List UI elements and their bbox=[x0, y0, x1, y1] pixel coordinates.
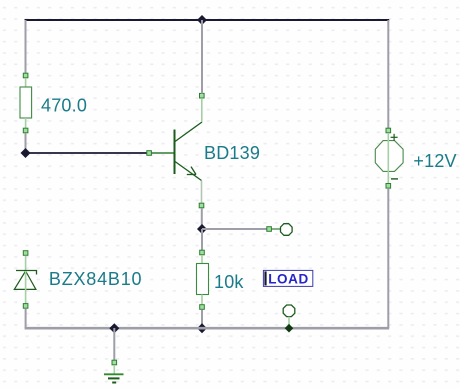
transistor BD139 bbox=[147, 93, 204, 207]
wire right vertical (bottom) bbox=[387, 188, 389, 328]
svg-text:+12V: +12V bbox=[413, 151, 456, 171]
svg-text:BD139: BD139 bbox=[204, 143, 260, 163]
terminal OUT (octagon) bbox=[267, 224, 292, 236]
node junction ground tap bbox=[109, 323, 119, 333]
wire top rail bbox=[25, 19, 390, 21]
wire left vertical (top to R470) bbox=[25, 20, 27, 74]
value label 10k bbox=[214, 272, 244, 292]
terminal bottom (octagon) bbox=[283, 305, 295, 333]
node junction top (collector tap) bbox=[197, 15, 207, 25]
svg-text:BZX84B10: BZX84B10 bbox=[49, 269, 142, 289]
label LOAD bbox=[263, 270, 312, 286]
zener diode BZX84B10 bbox=[14, 251, 36, 309]
wire emitter node to 10k bbox=[201, 229, 203, 251]
wire emitter down bbox=[201, 208, 203, 229]
svg-text:10k: 10k bbox=[214, 272, 244, 292]
wire collector (top node to transistor) bbox=[201, 20, 203, 94]
voltage source V1 +12V bbox=[375, 128, 403, 188]
wire base (dark) bbox=[26, 152, 148, 154]
svg-text:470.0: 470.0 bbox=[41, 96, 87, 116]
wire ground stem bbox=[113, 328, 115, 360]
label BZX84B10 bbox=[49, 269, 142, 289]
node junction emitter tap bbox=[197, 224, 207, 234]
node junction bottom (10k) bbox=[197, 323, 207, 333]
value label 470.0 bbox=[41, 96, 87, 116]
ground bbox=[104, 360, 124, 382]
wire R470 to base node bbox=[25, 133, 27, 153]
resistor 470.0 bbox=[20, 73, 32, 133]
node junction base tap bbox=[21, 148, 31, 158]
resistor 10k bbox=[197, 250, 209, 309]
wire right vertical (top) bbox=[387, 20, 389, 129]
label +12V bbox=[413, 151, 456, 171]
wire bottom rail bbox=[25, 327, 390, 330]
wire to right terminal bbox=[202, 228, 267, 230]
label BD139 bbox=[204, 143, 260, 163]
wire 10k to bottom rail bbox=[201, 310, 203, 329]
wire zener to bottom rail corner bbox=[25, 308, 27, 328]
svg-text:LOAD: LOAD bbox=[268, 271, 309, 286]
